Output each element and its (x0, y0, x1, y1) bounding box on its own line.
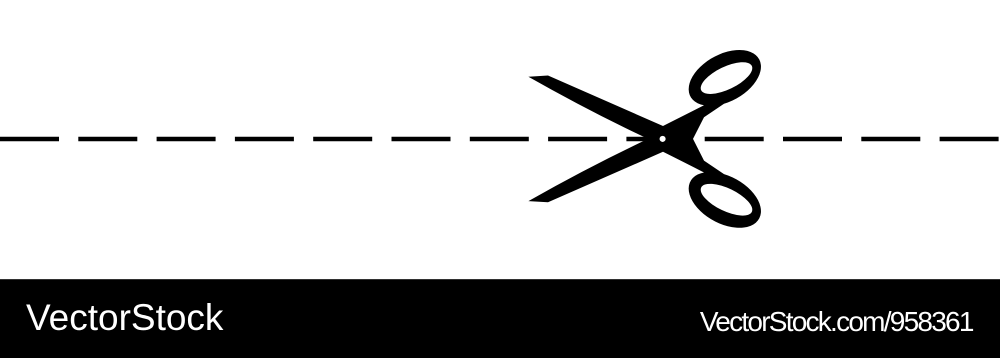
svg-text:VectorStock: VectorStock (26, 297, 224, 338)
upper handle hole (696, 56, 756, 101)
lower handle hole (696, 177, 756, 222)
footer bar (0, 279, 1000, 358)
pivot white dot (660, 136, 666, 142)
scissors silhouette (blades + shanks + solid handle ovals) (528, 50, 761, 228)
svg-text:VectorStock.com/958361: VectorStock.com/958361 (700, 306, 974, 337)
dashed cut line (0, 137, 1000, 141)
